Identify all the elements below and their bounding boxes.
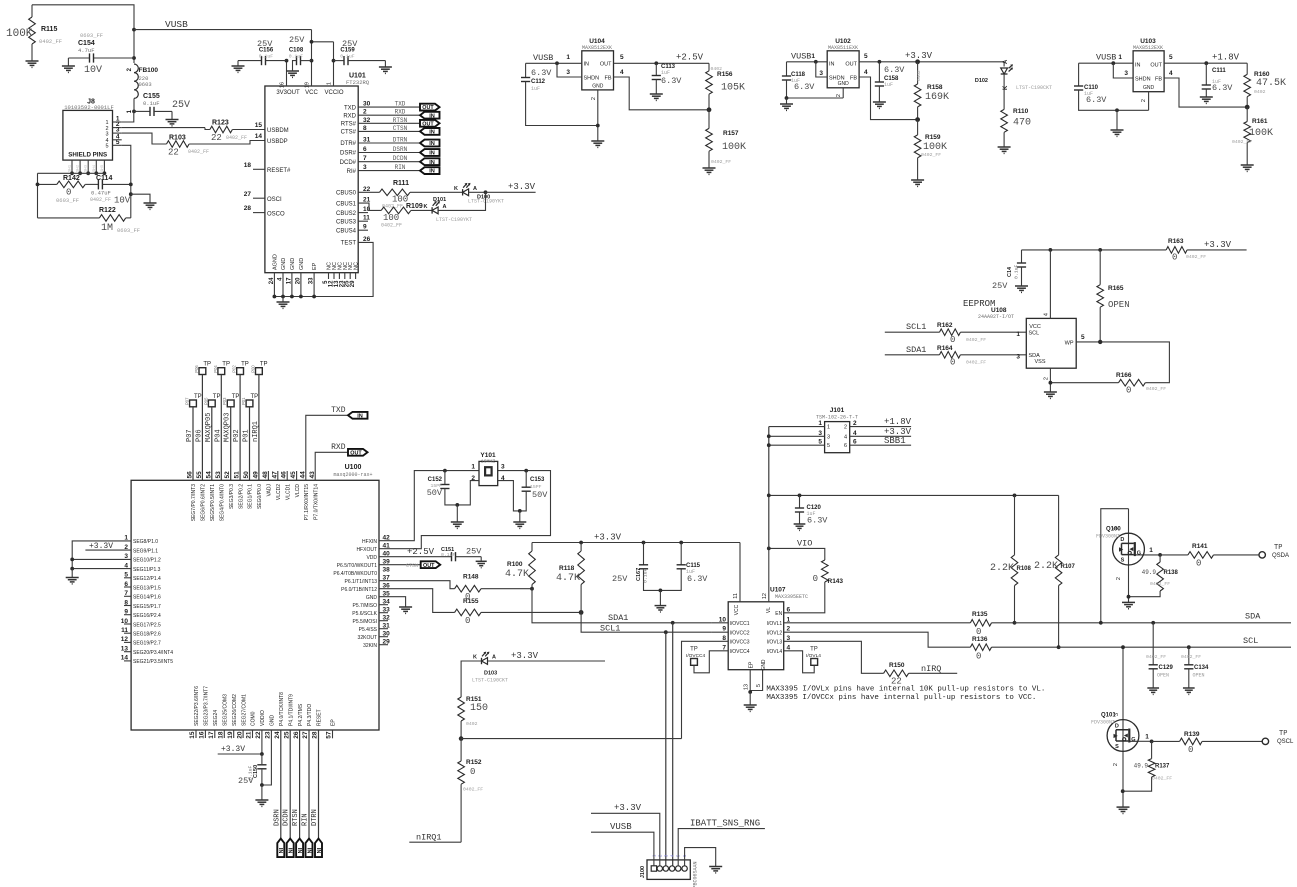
svg-text:16: 16 [199,731,206,739]
svg-text:QSCL: QSCL [1277,739,1294,745]
svg-text:SEG24: SEG24 [213,710,219,726]
node Q100 gate [1158,553,1162,557]
resistor R165 [1099,250,1101,285]
pin VL 12 U107 [768,548,770,601]
svg-text:1: 1 [1149,547,1153,554]
svg-text:TP: TP [194,394,202,400]
node C153 top [524,469,528,473]
svg-text:4.7K: 4.7K [505,569,529,580]
wire VL/VCC pullup rail [769,494,1059,496]
svg-text:10V: 10V [114,196,131,206]
wire VUSB top rail [32,5,134,63]
wire shield bus [38,172,105,174]
svg-text:SEG21/P3.5/INT5: SEG21/P3.5/INT5 [133,659,173,665]
ground J100 [709,866,722,868]
node FB100/C155/J8 junction [132,110,136,114]
ground C153 [519,511,521,522]
wire SHDN U104 [557,63,582,77]
svg-text:P06: P06 [195,429,203,442]
net +3.3V pin2 U100 [85,549,131,551]
svg-text:I/OVCC4: I/OVCC4 [730,649,750,655]
wire SHDN U102 [816,62,827,77]
svg-text:1: 1 [566,54,570,61]
svg-text:VLCD2: VLCD2 [276,484,282,500]
svg-text:0402_FF: 0402_FF [1146,386,1166,392]
svg-text:0402: 0402 [916,70,922,81]
svg-text:SEG7/P0.7/INT3: SEG7/P0.7/INT3 [191,484,197,521]
ground C159 [384,61,386,67]
test point TP MAXQP05 [208,400,215,407]
pin RESET# U101 [253,168,265,170]
svg-text:0402_FF: 0402_FF [90,197,111,203]
ground C120 [794,523,806,525]
svg-text:SCL1: SCL1 [906,322,926,332]
svg-text:2: 2 [591,97,597,100]
svg-text:EP: EP [749,661,755,668]
svg-text:I/OVL4: I/OVL4 [767,649,783,655]
svg-text:OUT: OUT [423,563,435,569]
wire FB U103 [1164,78,1247,107]
svg-text:SEG18/P2.6: SEG18/P2.6 [133,632,161,638]
capacitor C153 [525,471,527,488]
svg-text:R150: R150 [889,662,905,669]
svg-text:0402: 0402 [1254,89,1266,95]
svg-text:0: 0 [813,574,818,584]
svg-text:SEG12/P1.4: SEG12/P1.4 [133,576,161,582]
pin39 CTSN OUT flag [379,564,421,566]
svg-text:GND: GND [1143,85,1155,91]
svg-text:USBDM: USBDM [267,128,289,134]
svg-text:0.1uF: 0.1uF [259,54,274,60]
node VUSB/SHDN junction U102 [814,60,818,64]
svg-text:FT232RQ: FT232RQ [346,79,370,86]
svg-text:I/OVCC1: I/OVCC1 [730,621,750,627]
svg-text:0: 0 [1172,253,1177,263]
resistor R155 [379,589,455,613]
wire SCL1 vertical to J100 [665,632,667,866]
svg-text:19: 19 [227,731,234,739]
svg-text:IN: IN [429,141,435,147]
resistor R141 [1160,554,1188,556]
svg-text:AGND: AGND [272,254,278,270]
svg-text:22: 22 [168,148,179,158]
ground R115 [26,60,39,62]
svg-text:TP: TP [222,362,230,368]
flag OUT RXD [348,449,368,456]
svg-text:DCD#: DCD# [340,160,357,166]
svg-text:6.3V: 6.3V [1086,95,1107,105]
svg-text:27: 27 [302,731,309,739]
svg-text:0: 0 [465,616,470,626]
wire VCC to VCCIO bridge [312,41,334,43]
svg-text:13: 13 [744,684,750,690]
ground C14 [1015,285,1028,287]
svg-text:5: 5 [818,439,822,446]
capacitor C111 [1205,63,1207,85]
svg-text:R118: R118 [559,565,575,572]
shield pins stubs J8 [71,160,73,173]
svg-text:IN: IN [429,151,435,157]
pin 6 J101 [850,444,911,446]
svg-text:100K: 100K [6,28,33,40]
svg-text:2: 2 [1113,763,1119,766]
node Q101 drain on SCL [1121,645,1125,649]
pin 5 J100 [676,866,681,871]
svg-text:R165: R165 [1108,285,1124,292]
svg-text:0402: 0402 [466,721,478,727]
svg-text:0402_FF: 0402_FF [1146,654,1166,660]
svg-text:25V: 25V [466,547,482,557]
svg-text:I/OVCC2: I/OVCC2 [730,630,750,636]
svg-text:3: 3 [1124,70,1128,77]
svg-text:TP: TP [1274,544,1282,552]
svg-text:100: 100 [383,213,399,223]
svg-text:0: 0 [1126,386,1131,396]
svg-text:A: A [473,186,477,192]
pin EP 13 U107 [749,670,751,692]
net VUSB J100 [591,832,654,866]
svg-text:I/OVL2: I/OVL2 [767,630,783,636]
net IBATT_SNS_RNG [678,829,765,866]
resistor R135 [784,622,971,624]
capacitor C129 [1151,621,1155,625]
svg-text:100K: 100K [923,142,947,153]
node C113 [654,61,658,65]
pin 5 J8 [113,144,122,146]
wire Q100 drain loop to SDA [1101,509,1129,623]
svg-text:IN: IN [296,848,302,854]
pin 3 J100 [663,866,668,871]
svg-text:5: 5 [827,443,830,449]
svg-text:5: 5 [620,54,624,61]
U101 NC pins [328,273,330,279]
IC U101 FT232RQ [265,86,358,273]
svg-text:MAX8512EXK: MAX8512EXK [582,45,612,51]
svg-text:VSS: VSS [1034,359,1045,365]
wire Q101 gate [1139,740,1152,742]
svg-text:SDA1: SDA1 [608,613,628,623]
resistor R166 [1119,379,1146,386]
svg-text:+3.3V: +3.3V [905,51,933,61]
svg-text:DSRN: DSRN [273,809,281,826]
node R136/R107 SCL [1057,645,1061,649]
node VUSB junction [132,28,136,32]
svg-text:105K: 105K [721,83,745,94]
svg-text:R161: R161 [1252,118,1268,125]
wire OUT +1.8V [1164,62,1247,64]
svg-text:+3.3V: +3.3V [511,651,539,661]
svg-text:VCC: VCC [734,604,740,615]
flag IN DCDN (rotated) [287,839,294,858]
svg-text:P04: P04 [214,429,222,442]
svg-text:C167: C167 [636,568,642,581]
svg-text:P00: P00 [250,365,255,373]
svg-text:SEG23/P3.7/INT7: SEG23/P3.7/INT7 [204,686,210,726]
svg-text:14: 14 [255,133,263,140]
wire J101 pins 1-3-5 common [768,427,770,549]
svg-text:0.1uF: 0.1uF [340,54,355,60]
svg-text:SEG9/P1.1: SEG9/P1.1 [133,548,158,554]
resistor R152 [460,739,462,761]
svg-text:RTS#: RTS# [341,122,357,128]
node gnd C153 [518,509,522,513]
svg-text:R162: R162 [937,322,953,329]
svg-text:nIRQ: nIRQ [921,664,941,674]
test point TP P04 [218,368,225,375]
svg-text:G: G [1131,737,1135,743]
svg-text:C134: C134 [1194,665,1209,671]
connector J100 [647,860,690,880]
svg-text:SCL1: SCL1 [600,624,620,634]
svg-text:0: 0 [950,358,955,368]
pin 3 J8 [113,132,122,134]
svg-text:VLCD1: VLCD1 [285,484,291,500]
LED D100 [462,189,464,195]
svg-text:24AA02T-I/OT: 24AA02T-I/OT [978,314,1014,320]
svg-text:SEG0/P0.0: SEG0/P0.0 [257,484,263,509]
svg-text:RESET: RESET [317,709,323,726]
svg-text:R148: R148 [463,574,479,581]
ground C134 [1183,687,1195,689]
svg-text:SCL: SCL [1029,331,1040,337]
capacitor C134 [1187,645,1191,649]
svg-text:U103: U103 [1140,38,1156,45]
U101 bottom gnd pins [273,273,275,297]
flag IN DCDN [420,158,440,165]
pin 5 J101 [769,444,825,446]
ground U107 [749,692,751,705]
pin GND 5 U107 [750,670,762,691]
svg-text:6.3V: 6.3V [661,76,682,86]
svg-text:PBC06SAAN: PBC06SAAN [693,861,699,887]
svg-text:EP: EP [331,719,337,726]
resistor R164 [940,352,961,359]
node R148/R100 [530,587,534,591]
svg-text:R166: R166 [1116,372,1132,379]
svg-text:150: 150 [470,703,488,714]
connector J101 [825,422,850,453]
svg-text:P04: P04 [213,365,218,373]
svg-text:0.1uF: 0.1uF [289,54,304,60]
svg-text:27: 27 [244,191,252,198]
node R142 left [36,183,40,187]
svg-text:32KOUT: 32KOUT [358,635,377,641]
pin 3V3OUT U101 [286,61,288,86]
svg-text:0603_FF: 0603_FF [80,32,103,39]
svg-text:0402_FF: 0402_FF [188,149,209,155]
svg-text:I/OVCC3: I/OVCC3 [730,640,750,646]
svg-text:EN: EN [775,611,782,617]
svg-text:5: 5 [864,53,868,60]
svg-text:K: K [473,655,477,661]
wire +3.3V rail [532,542,740,544]
svg-text:SH3: SH3 [84,165,88,172]
svg-text:+2.5V: +2.5V [407,547,435,557]
svg-text:TEST: TEST [341,241,357,247]
svg-text:IN: IN [429,130,435,136]
svg-text:P07: P07 [185,397,190,405]
svg-text:SEG25/COM3: SEG25/COM3 [223,694,229,726]
svg-text:4: 4 [864,69,868,76]
pin OSCO U101 [253,212,265,214]
svg-text:SEG17/P2.5: SEG17/P2.5 [133,622,161,628]
svg-text:VDD: VDD [366,555,377,561]
capacitor C118 [786,62,788,76]
svg-text:4: 4 [1044,313,1050,316]
svg-text:IN: IN [584,62,590,68]
node VCC stub [1049,248,1053,252]
svg-text:VIO: VIO [797,539,812,549]
svg-text:DTRN: DTRN [393,137,408,144]
svg-text:R138: R138 [1164,570,1179,576]
svg-text:GND: GND [761,659,767,671]
ground R159 [911,179,924,181]
IC U104 MAX8512 [582,51,614,90]
svg-text:FB: FB [1155,77,1162,83]
flag OUT RTSN [420,120,440,127]
svg-text:SEG19/P2.7: SEG19/P2.7 [133,641,161,647]
svg-text:P4.3/TDO: P4.3/TDO [307,704,313,726]
svg-text:D101: D101 [433,197,446,203]
svg-text:P5.7/MISO: P5.7/MISO [353,603,378,609]
wire pin4 U100 [72,568,131,570]
wire FB U104 [614,77,710,110]
svg-text:VCC: VCC [305,90,318,96]
pin GND U102 [842,88,844,98]
ground C156 [237,61,239,66]
test point TP MAXQP03 [227,400,234,407]
svg-text:169K: 169K [925,92,949,103]
svg-text:5: 5 [756,684,762,687]
resistor R142 [38,183,57,185]
resistor R148 [379,581,455,589]
svg-text:maxq2000-rax+: maxq2000-rax+ [333,472,372,478]
svg-text:SEG16/P2.4: SEG16/P2.4 [133,613,161,619]
svg-text:0402_FF: 0402_FF [921,152,941,158]
IC U107 MAX3395 [728,602,784,670]
svg-text:15: 15 [189,731,196,739]
net +3.3V VDDIO [218,753,262,755]
svg-text:+1.8V: +1.8V [884,417,912,427]
svg-text:3: 3 [566,69,570,76]
svg-text:VUSB: VUSB [610,822,632,832]
svg-text:IN: IN [315,848,321,854]
svg-text:RI#: RI# [347,169,357,175]
svg-text:K: K [454,186,458,192]
capacitor C108 [296,56,298,65]
resistor R107 2.2K [1058,495,1060,555]
svg-text:MAX8512EXK: MAX8512EXK [1133,45,1163,51]
svg-text:FDV300NT: FDV300NT [1096,534,1120,540]
ground C113 [650,93,663,95]
pin WP U108 / wire to R166 [1076,342,1169,383]
wire J8 pin1 to VUSB node [122,111,134,122]
svg-text:IN: IN [357,413,363,419]
svg-text:D103: D103 [484,671,497,677]
svg-text:25V: 25V [172,100,190,111]
svg-text:0: 0 [950,335,955,345]
svg-text:FDV300NT: FDV300NT [1091,720,1115,726]
svg-text:+3.3V: +3.3V [1204,240,1232,250]
svg-text:LTST-C190CKT: LTST-C190CKT [1016,85,1052,91]
svg-text:32KIN: 32KIN [363,643,377,649]
node FB divider U102 [915,117,920,122]
svg-text:11: 11 [733,593,739,599]
net +3.3V J100 [591,813,660,866]
resistor R115 [31,5,33,17]
svg-text:VCCIO: VCCIO [324,90,343,96]
pin 2 J100 [657,866,662,871]
svg-text:0.47uF: 0.47uF [91,190,111,197]
pin VCC U101 [311,30,313,86]
wire crystal pin4 [498,481,520,511]
svg-text:P5.6/SCLK: P5.6/SCLK [352,611,377,617]
svg-text:SEG13/P1.5: SEG13/P1.5 [133,585,161,591]
svg-text:P6.0/T1B/INT12: P6.0/T1B/INT12 [341,587,377,593]
IC U103 MAX8512 [1133,51,1164,92]
svg-text:23: 23 [265,731,272,739]
svg-text:IN: IN [429,160,435,166]
svg-text:0603_FF: 0603_FF [56,197,79,204]
wire +3.3V LED rail [486,191,536,193]
svg-text:5: 5 [1169,54,1173,61]
svg-text:+3.3V: +3.3V [508,182,536,192]
flag OUT CTSN [421,561,441,568]
svg-text:U102: U102 [835,38,851,45]
resistor R109 [358,203,381,210]
svg-text:25V: 25V [238,776,254,786]
svg-text:17: 17 [286,277,292,284]
svg-text:2: 2 [1141,99,1147,102]
svg-text:0402_FF: 0402_FF [711,159,731,165]
ground Q101 [1117,806,1130,808]
svg-text:R137: R137 [1155,764,1170,770]
svg-text:VL: VL [766,607,772,613]
wire J100 pin6 gnd [685,848,716,867]
svg-text:SH1: SH1 [68,165,72,172]
svg-text:1uF: 1uF [531,86,540,92]
ground Q100 [1122,601,1135,603]
svg-text:17: 17 [208,731,215,739]
svg-text:33: 33 [309,277,315,284]
svg-text:IN: IN [429,169,435,175]
svg-text:28: 28 [244,205,252,212]
svg-text:DCDN: DCDN [283,809,291,826]
node gnd branch [129,192,133,196]
flag OUT TXD [420,104,440,111]
svg-text:IN: IN [305,848,311,854]
IC U102 MAX8511 [827,51,859,88]
svg-text:P07: P07 [186,429,194,442]
svg-text:R100: R100 [507,561,523,568]
resistor R122 [38,217,100,219]
wire OUT +2.5V [614,62,710,64]
svg-text:2: 2 [844,425,847,431]
wire TP I/OVL4 to pin4 [784,651,815,673]
svg-text:U100: U100 [345,464,362,471]
ground C150 [261,785,263,800]
svg-text:C129: C129 [1159,665,1174,671]
svg-text:A: A [492,655,496,661]
svg-text:0402_FF: 0402_FF [1181,654,1201,660]
svg-text:U108: U108 [991,307,1007,314]
svg-text:+3.3V: +3.3V [89,542,113,551]
svg-text:0: 0 [1196,559,1201,569]
svg-text:10V: 10V [84,65,102,76]
svg-text:OPEN: OPEN [1193,673,1205,679]
svg-text:6: 6 [844,443,847,449]
flag IN RIN [420,167,440,174]
